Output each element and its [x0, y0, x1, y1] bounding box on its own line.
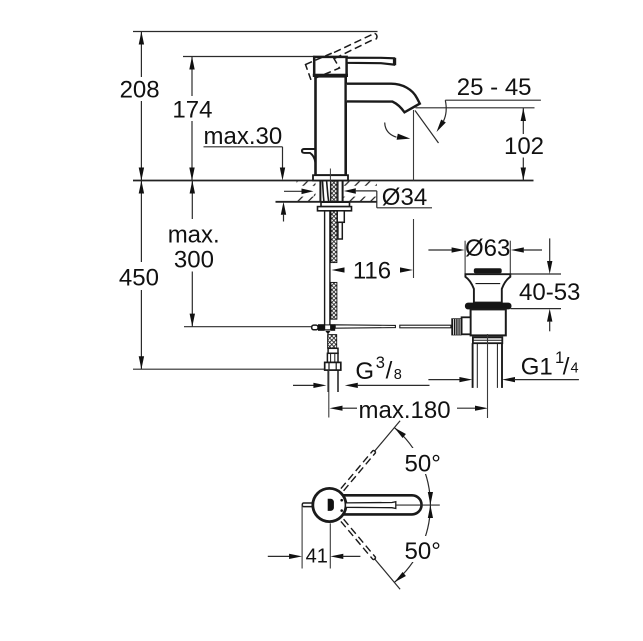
drain tailpipe	[473, 343, 502, 388]
pop-up rod middle section	[335, 325, 395, 328]
G3/8 nut	[325, 362, 341, 370]
pull rod channel in deck	[337, 181, 339, 202]
dimension 40-53	[511, 273, 562, 275]
bottom view: dashed lever upper	[341, 450, 376, 491]
dashed cap (raised handle position)	[306, 54, 340, 81]
braided hose in deck	[331, 181, 337, 211]
pop-up rod right section	[400, 325, 451, 328]
rod junction center	[325, 325, 331, 330]
dimension max.300	[191, 181, 193, 327]
dimension 102	[416, 107, 535, 109]
dimension Ø63	[464, 241, 466, 274]
spout	[347, 84, 420, 113]
bottom view: handle	[343, 495, 422, 514]
svg-text:3: 3	[376, 354, 385, 372]
countertop deck top line	[133, 180, 534, 182]
faucet body	[316, 76, 346, 175]
svg-text:/: /	[386, 357, 393, 384]
svg-text:Ø34: Ø34	[382, 184, 427, 211]
bottom view: 50 degree arc lower	[394, 505, 430, 582]
faucet centerline	[329, 169, 331, 211]
shank left wall	[319, 181, 321, 202]
hose ferrule	[328, 348, 338, 353]
left stream-angle curved arrow	[385, 123, 397, 138]
dimension G3/8 arrows	[293, 384, 314, 386]
bottom view: left tab	[302, 503, 314, 507]
svg-text:4: 4	[571, 360, 579, 376]
drain O-ring	[465, 303, 512, 310]
svg-text:208: 208	[120, 77, 160, 104]
svg-text:/: /	[563, 353, 570, 380]
faucet base flange	[313, 175, 348, 180]
mounting nut	[321, 202, 350, 206]
dashed lever (raised position)	[334, 33, 377, 58]
dimension max.180	[328, 369, 330, 417]
handle cap	[314, 57, 346, 75]
bottom view: extension line lower 50	[374, 559, 400, 590]
svg-text:max.30: max.30	[204, 123, 283, 150]
svg-text:174: 174	[172, 96, 212, 123]
countertop deck bottom line	[276, 201, 378, 203]
svg-text:450: 450	[119, 265, 159, 292]
svg-text:41: 41	[306, 545, 328, 567]
svg-text:50°: 50°	[405, 538, 441, 565]
bottom view: handle slot	[346, 502, 396, 509]
smooth hose curving through deck	[323, 181, 325, 211]
drain collar	[473, 337, 502, 343]
bottom view: extension line upper 50	[374, 421, 400, 452]
bottom view: 50 degree arc upper	[394, 428, 430, 505]
stream angle diagonal	[415, 111, 439, 144]
svg-text:50°: 50°	[405, 450, 441, 477]
svg-text:max.180: max.180	[359, 397, 451, 424]
knurled knob	[451, 318, 461, 335]
junction lower wedge	[325, 331, 330, 335]
svg-text:40-53: 40-53	[519, 279, 580, 306]
dimension 450	[140, 181, 142, 370]
shank right wall	[342, 181, 344, 202]
pull rod stub	[337, 211, 344, 223]
svg-text:Ø63: Ø63	[465, 235, 510, 262]
bottom view: centerline through handle	[396, 504, 440, 506]
drain body	[471, 309, 506, 335]
svg-text:max.: max.	[168, 222, 220, 249]
dimension 116	[332, 267, 345, 272]
bottom view: cartridge D mark	[328, 499, 334, 511]
bottom view: detail dots	[340, 499, 343, 502]
svg-text:25 - 45: 25 - 45	[457, 74, 532, 101]
dimension 174	[191, 57, 193, 181]
drain plug cap	[474, 268, 502, 273]
aerator hook on body	[302, 149, 316, 163]
smooth hose below deck	[324, 211, 326, 325]
dimension 208	[140, 32, 142, 181]
svg-text:300: 300	[174, 246, 214, 273]
rod junction left block	[318, 324, 325, 331]
reference line top of cap (174 level)	[183, 56, 315, 58]
braided hose below deck upper	[331, 211, 337, 263]
hose hex	[327, 353, 338, 362]
dimension 41	[301, 505, 303, 569]
svg-text:102: 102	[504, 133, 544, 160]
reference line top of raised lever (208 level)	[133, 31, 378, 33]
water stream reference line	[413, 110, 415, 181]
deck section hatching	[297, 181, 316, 201]
hose tube end	[327, 370, 329, 392]
pop-up rod left section	[184, 326, 312, 328]
svg-text:G: G	[355, 358, 374, 385]
rod junction right block	[331, 324, 336, 331]
rod junction capsule	[312, 325, 318, 330]
braided hose below deck lower	[331, 282, 337, 319]
handle lever	[347, 58, 394, 65]
reference line hose end (450 bottom level)	[133, 368, 325, 370]
svg-text:116: 116	[353, 258, 391, 285]
bottom view: dashed lever lower	[341, 519, 376, 560]
drain centerline	[487, 334, 489, 418]
bottom view: body circle	[313, 488, 346, 521]
braided hose to connector	[328, 335, 337, 349]
svg-text:G1: G1	[521, 354, 553, 381]
drain flange	[465, 274, 510, 302]
dimension Ø34 arrows	[284, 190, 302, 192]
knob housing	[462, 317, 471, 334]
svg-text:8: 8	[394, 367, 402, 383]
